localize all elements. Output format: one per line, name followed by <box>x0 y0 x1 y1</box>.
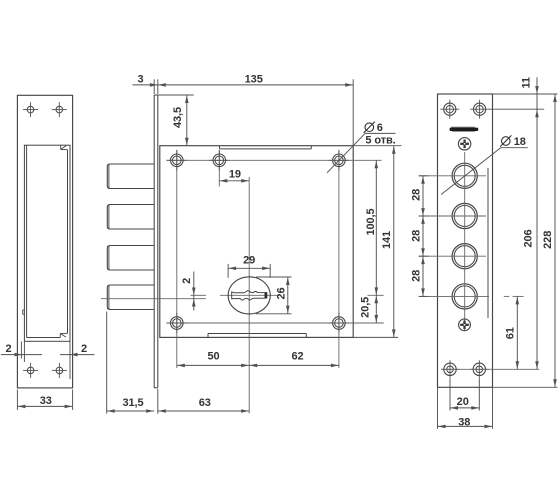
svg-text:61: 61 <box>505 327 517 339</box>
svg-text:26: 26 <box>276 287 288 299</box>
svg-text:141: 141 <box>381 231 393 249</box>
svg-text:28: 28 <box>410 270 422 282</box>
svg-text:19: 19 <box>229 168 241 180</box>
svg-text:135: 135 <box>245 73 263 85</box>
svg-text:18: 18 <box>514 136 526 148</box>
svg-text:28: 28 <box>410 189 422 201</box>
svg-text:206: 206 <box>523 229 535 247</box>
svg-text:6: 6 <box>377 122 383 134</box>
svg-text:31,5: 31,5 <box>122 397 143 409</box>
svg-text:29: 29 <box>243 255 255 267</box>
svg-text:11: 11 <box>521 77 533 88</box>
svg-text:20: 20 <box>457 396 469 408</box>
svg-text:2: 2 <box>81 343 87 355</box>
svg-text:33: 33 <box>40 395 52 407</box>
svg-text:2: 2 <box>181 278 193 284</box>
svg-text:50: 50 <box>207 351 219 363</box>
svg-text:43,5: 43,5 <box>172 107 184 128</box>
svg-text:20,5: 20,5 <box>360 297 372 318</box>
svg-text:5 отв.: 5 отв. <box>365 135 395 147</box>
svg-text:100,5: 100,5 <box>365 208 377 235</box>
svg-text:63: 63 <box>199 397 211 409</box>
svg-text:3: 3 <box>137 73 143 85</box>
svg-text:2: 2 <box>5 343 11 355</box>
svg-text:62: 62 <box>291 351 303 363</box>
svg-text:28: 28 <box>410 230 422 242</box>
svg-text:228: 228 <box>542 231 554 249</box>
